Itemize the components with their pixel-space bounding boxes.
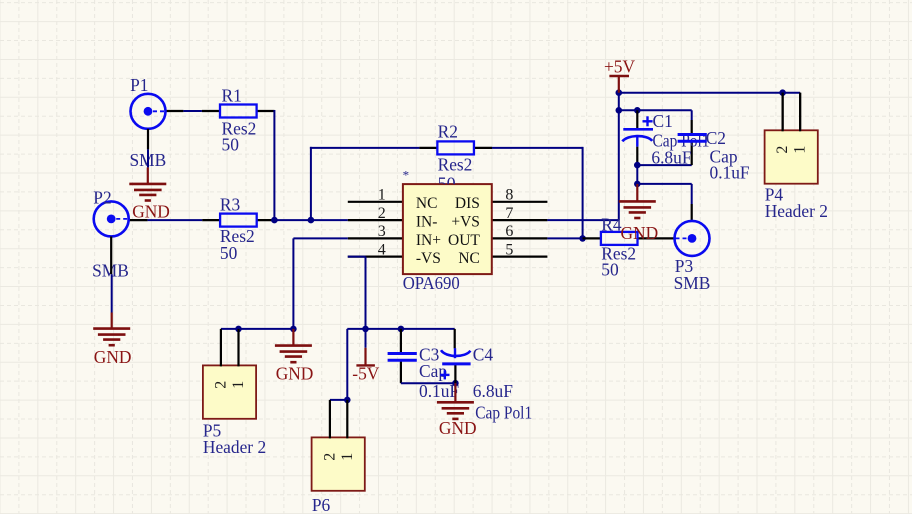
svg-text:50: 50: [222, 134, 240, 154]
svg-text:0.1uF: 0.1uF: [710, 162, 750, 182]
svg-text:2: 2: [321, 453, 338, 461]
svg-text:3: 3: [378, 223, 386, 240]
svg-text:R3: R3: [220, 195, 241, 215]
svg-text:P6: P6: [312, 495, 331, 514]
svg-text:50: 50: [601, 260, 619, 280]
svg-text:-VS: -VS: [416, 250, 441, 267]
svg-text:NC: NC: [458, 250, 480, 267]
svg-text:GND: GND: [94, 347, 132, 367]
svg-text:+VS: +VS: [451, 214, 480, 231]
svg-text:C1: C1: [653, 111, 673, 131]
svg-text:2: 2: [378, 205, 386, 222]
svg-text:GND: GND: [621, 223, 659, 243]
svg-text:7: 7: [505, 205, 513, 222]
svg-text:8: 8: [505, 187, 513, 204]
svg-text:GND: GND: [276, 364, 314, 384]
svg-text:Header 2: Header 2: [765, 201, 828, 221]
svg-text:Cap Pol1: Cap Pol1: [475, 402, 532, 422]
svg-text:GND: GND: [132, 201, 170, 221]
svg-text:IN+: IN+: [416, 232, 441, 249]
svg-text:GND: GND: [439, 418, 477, 438]
svg-text:2: 2: [212, 381, 229, 389]
svg-text:R4: R4: [601, 215, 622, 235]
svg-text:1: 1: [339, 453, 356, 461]
svg-text:IN-: IN-: [416, 214, 438, 231]
svg-text:50: 50: [220, 243, 238, 263]
svg-text:1: 1: [378, 187, 386, 204]
svg-text:2: 2: [774, 146, 791, 154]
svg-text:R1: R1: [222, 86, 242, 106]
svg-text:5: 5: [505, 241, 513, 258]
svg-text:1: 1: [230, 381, 247, 389]
svg-text:6: 6: [505, 223, 513, 240]
svg-text:NC: NC: [416, 195, 438, 212]
svg-text:C4: C4: [473, 344, 494, 364]
svg-text:6.8uF: 6.8uF: [651, 147, 691, 167]
svg-text:C2: C2: [706, 128, 726, 148]
svg-text:4: 4: [378, 241, 386, 258]
svg-text:0.1uF: 0.1uF: [419, 381, 459, 401]
svg-text:OPA690: OPA690: [403, 273, 460, 293]
svg-text:OUT: OUT: [448, 232, 480, 249]
svg-text:P2: P2: [93, 187, 111, 207]
svg-text:R2: R2: [438, 122, 458, 142]
svg-text:P1: P1: [130, 75, 148, 95]
svg-text:Res2: Res2: [438, 154, 473, 174]
svg-text:DIS: DIS: [455, 195, 480, 212]
svg-text:SMB: SMB: [674, 273, 711, 293]
svg-text:1: 1: [792, 146, 809, 154]
svg-text:*: *: [403, 168, 410, 183]
svg-text:Header 2: Header 2: [203, 437, 266, 457]
svg-text:+5V: +5V: [604, 56, 636, 76]
svg-text:6.8uF: 6.8uF: [473, 381, 513, 401]
